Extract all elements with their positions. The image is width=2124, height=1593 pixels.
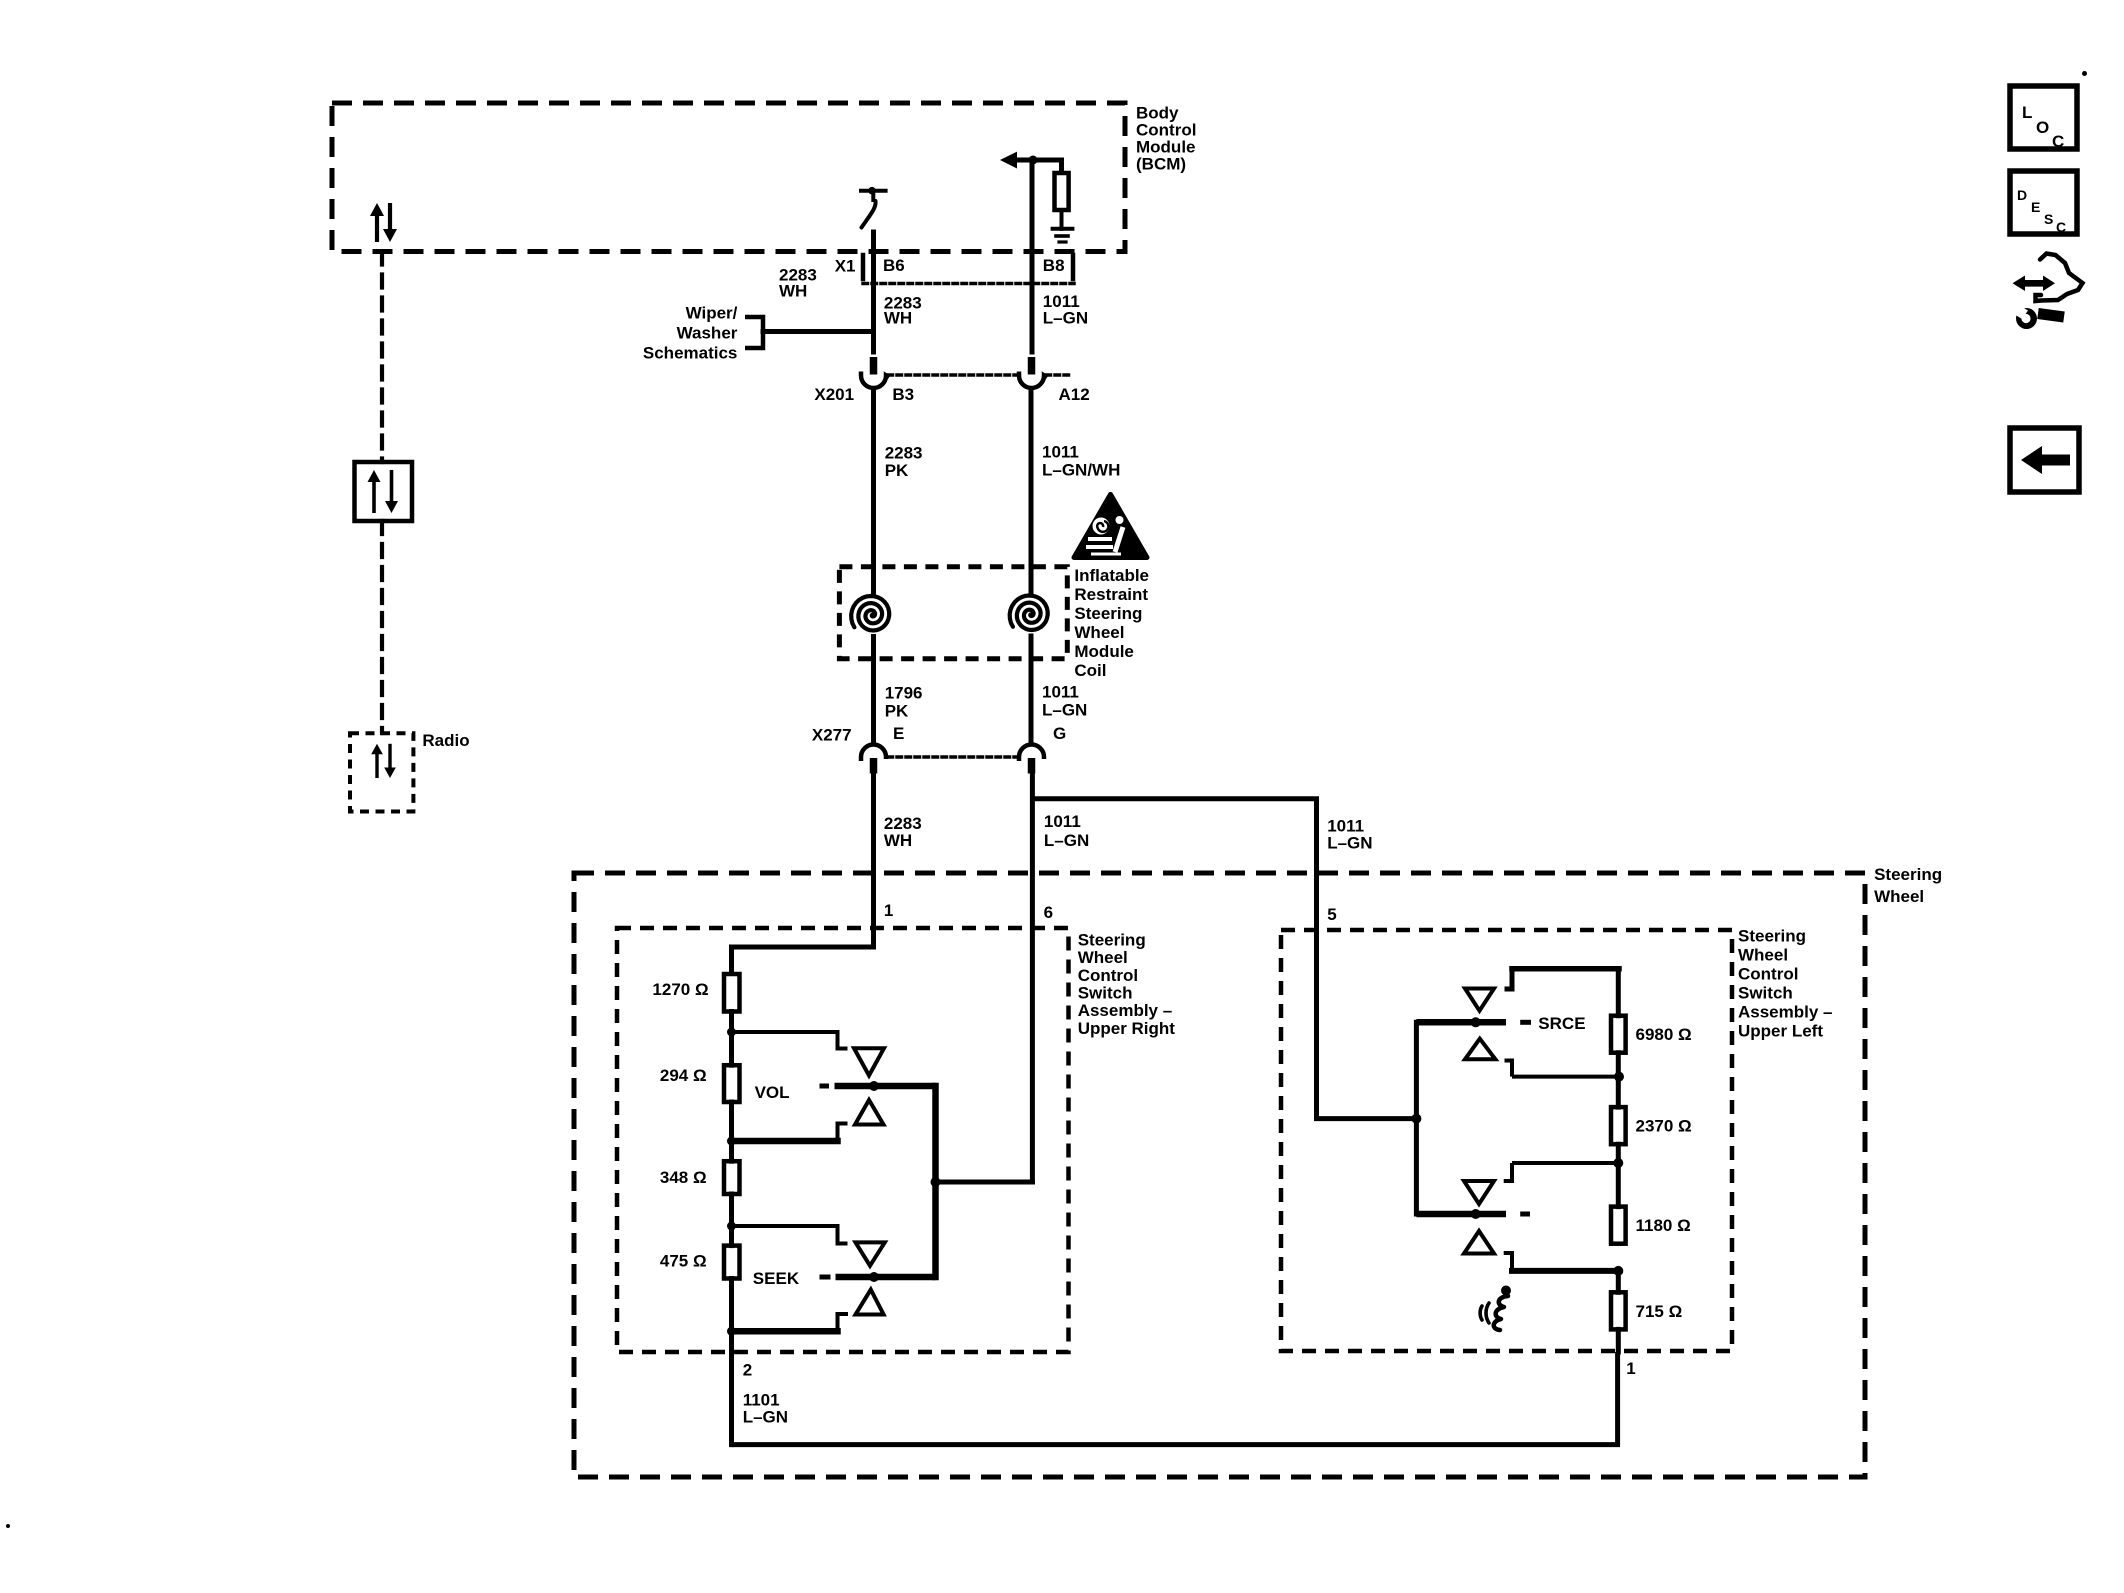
VOL switch up contact [732,1032,848,1049]
svg-text:L: L [2022,103,2032,122]
tools icon [2013,276,2056,292]
resistor 2370 [1611,1107,1626,1144]
SRCE switch down contact [1505,1061,1620,1077]
svg-text:SRCE: SRCE [1538,1014,1585,1033]
SIR coil box [839,567,1067,659]
svg-text:E: E [2031,199,2040,215]
SRCE down triangle [1465,1039,1495,1060]
svg-text:B8: B8 [1043,256,1065,275]
svg-text:D: D [2017,187,2027,203]
svg-text:L–GN: L–GN [1043,309,1088,328]
wire [729,1032,734,1065]
svg-text:1796: 1796 [885,684,923,703]
VOL switch pole [820,1084,830,1089]
wire [729,1194,734,1226]
svg-text:Wheel: Wheel [1874,887,1924,906]
wire [729,1279,734,1332]
resistor R-BCM [1055,173,1069,210]
svg-text:Control: Control [1738,965,1798,984]
svg-text:2283: 2283 [884,814,922,833]
SRCE switch pole [1416,1019,1506,1026]
svg-text:Control: Control [1078,966,1138,985]
wire [1616,1053,1621,1107]
svg-text:Radio: Radio [422,731,469,750]
VOL switch down contact [838,1124,848,1142]
svg-text:Restraint: Restraint [1074,585,1148,604]
svg-text:6: 6 [1044,903,1053,922]
wire [729,1141,734,1161]
svg-text:294 Ω: 294 Ω [660,1066,707,1085]
junction [1411,1114,1421,1124]
wire 1101 L-GN [729,1331,734,1444]
svg-text:Steering: Steering [1074,604,1142,623]
connector X201 (B3) [870,357,878,375]
svg-text:2283: 2283 [885,444,923,463]
coil left [851,596,889,631]
serial data node box [355,462,413,521]
svg-text:X277: X277 [812,725,852,744]
SEEK down triangle [856,1290,884,1315]
wire [763,329,871,334]
connector X1 row [861,255,866,268]
connector X277 E [861,745,886,762]
resistor 475 [724,1246,740,1279]
svg-text:B6: B6 [883,256,905,275]
dashed link wire [380,252,384,463]
svg-text:B3: B3 [892,385,914,404]
svg-text:Wheel: Wheel [1078,948,1128,967]
svg-text:Schematics: Schematics [643,344,738,363]
svg-text:715 Ω: 715 Ω [1636,1302,1683,1321]
junction [727,1222,736,1231]
junction [727,1327,736,1336]
wire 2283 WH [871,232,876,352]
svg-text:1101: 1101 [743,1390,780,1409]
svg-text:VOL: VOL [755,1083,790,1102]
speck [2082,71,2087,76]
resistor 6980 [1611,1016,1626,1053]
svg-text:Assembly –: Assembly – [1738,1003,1833,1022]
svg-text:Switch: Switch [1738,984,1793,1003]
wire [729,1102,734,1141]
switch S1 in BCM [861,189,886,193]
svg-text:1011: 1011 [1042,683,1079,702]
junction [727,1137,736,1146]
wire [1060,210,1064,229]
svg-text:L–GN: L–GN [743,1408,788,1427]
connector A12 [1028,357,1036,375]
svg-text:Steering: Steering [1078,931,1146,950]
svg-text:G: G [1053,724,1066,743]
svg-text:Coil: Coil [1074,661,1106,680]
junction [1614,1072,1624,1082]
Steering Wheel box [574,873,1865,1477]
wire 1011 L-GN/WH [1029,389,1034,593]
svg-text:E: E [893,724,904,743]
svg-text:S: S [2044,211,2053,227]
wire 1011 L-GN [1029,636,1034,744]
VOL down triangle [855,1100,884,1125]
svg-text:Steering: Steering [1874,865,1942,884]
voice switch down contact [1504,1253,1619,1271]
SRCE switch up contact [1505,969,1620,989]
junction [1613,1158,1623,1168]
junction [1613,1266,1623,1276]
ground [1053,227,1073,231]
back button [2010,428,2079,492]
SEEK switch down contact [838,1314,849,1331]
SEEK up triangle [856,1242,885,1265]
speck [6,1524,10,1528]
wire 2283 PK [871,389,876,594]
svg-text:A12: A12 [1059,385,1090,404]
voice switch up contact [1504,1163,1619,1181]
wire 1011 L-GN [1030,774,1035,1182]
svg-text:PK: PK [885,461,909,480]
bus wire [1414,1022,1419,1214]
wire 1796 PK [871,637,876,745]
connector row dotted line [888,755,1018,759]
svg-text:C: C [2052,132,2064,151]
svg-text:Washer: Washer [677,324,738,343]
junction [1029,156,1038,165]
Body Control Module (BCM) box [332,103,1125,252]
svg-text:Module: Module [1074,642,1134,661]
resistor 294 [724,1065,740,1102]
voice switch pole [1416,1211,1506,1218]
svg-text:1: 1 [884,901,893,920]
serial data node arrows [372,480,376,513]
serial data arrows in BCM [375,214,379,242]
svg-text:Wiper/: Wiper/ [686,304,738,323]
resistor 715 [1611,1292,1626,1329]
wire [1616,1144,1621,1206]
DESC button [2010,171,2077,234]
VOL up triangle [854,1048,884,1075]
back arrow [2021,446,2070,474]
resistor 1270 [724,974,740,1012]
svg-text:Upper Left: Upper Left [1738,1022,1823,1041]
svg-text:(BCM): (BCM) [1136,155,1186,174]
svg-text:Switch: Switch [1078,984,1133,1003]
svg-text:C: C [2056,219,2066,235]
svg-text:X1: X1 [835,257,856,276]
svg-text:WH: WH [884,831,912,850]
SWC assembly Upper Right box [617,928,1069,1352]
svg-text:L–GN: L–GN [1044,831,1089,850]
connector X277 G [1019,745,1044,762]
wire [1616,1329,1621,1352]
coil right [1010,596,1048,631]
svg-text:348 Ω: 348 Ω [660,1168,707,1187]
wire [729,1012,734,1033]
dashed link wire [380,521,384,733]
svg-text:2: 2 [743,1361,752,1380]
svg-text:WH: WH [884,309,912,328]
wire [729,1226,734,1246]
svg-text:1011: 1011 [1044,812,1081,831]
Radio box [350,733,413,811]
SRCE up triangle [1465,989,1494,1011]
svg-text:PK: PK [885,702,909,721]
svg-text:1180 Ω: 1180 Ω [1636,1216,1691,1235]
svg-text:2370 Ω: 2370 Ω [1636,1117,1692,1136]
svg-text:475 Ω: 475 Ω [660,1252,707,1271]
junction [931,1177,941,1187]
radio arrows [375,752,378,778]
svg-text:SEEK: SEEK [753,1269,800,1288]
svg-text:O: O [2036,118,2049,137]
wire to pin 6 [936,1180,1033,1185]
wire [1616,1271,1621,1292]
SEEK switch up contact [732,1226,848,1244]
junction [727,1028,736,1037]
connector row dotted line [888,373,1018,377]
LOC button [2010,86,2077,149]
wire [1616,969,1621,1016]
signal arrow in BCM [1000,152,1017,169]
wire 1011 L-GN branch [1032,799,1413,1119]
svg-text:X201: X201 [814,385,854,404]
voice up triangle [1464,1181,1494,1204]
airbag warning icon [1074,494,1147,557]
bracket [745,317,763,348]
svg-text:1270 Ω: 1270 Ω [652,980,708,999]
svg-text:Wheel: Wheel [1074,623,1124,642]
wire 1011 L-GN [1030,160,1035,352]
svg-text:Inflatable: Inflatable [1074,566,1149,585]
SWC assembly Upper Left box [1281,930,1732,1351]
svg-text:Wheel: Wheel [1738,946,1788,965]
svg-text:Steering: Steering [1738,927,1806,946]
svg-text:6980 Ω: 6980 Ω [1636,1025,1692,1044]
svg-text:L–GN/WH: L–GN/WH [1042,461,1120,480]
svg-text:Assembly –: Assembly – [1078,1001,1173,1020]
svg-text:Upper Right: Upper Right [1078,1019,1176,1038]
wire 2283 WH [871,774,876,947]
voice down triangle [1464,1231,1494,1254]
wire [732,947,874,974]
svg-text:WH: WH [779,281,807,300]
SEEK switch pole [820,1275,831,1280]
svg-text:L–GN: L–GN [1327,834,1372,853]
svg-text:1011: 1011 [1042,443,1079,462]
resistor 348 [724,1161,740,1194]
svg-text:L–GN: L–GN [1042,701,1087,720]
svg-text:1: 1 [1626,1359,1635,1378]
common bus wire [932,1086,939,1277]
svg-text:5: 5 [1327,905,1336,924]
resistor 1180 [1611,1207,1626,1244]
voice recognition icon [1501,1286,1511,1296]
